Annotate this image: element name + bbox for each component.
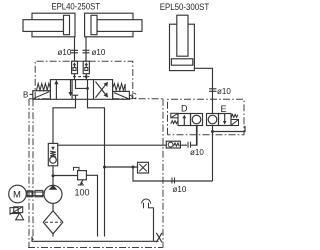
svg-text:ø10: ø10 [92,48,106,57]
svg-text:100: 100 [75,188,90,198]
svg-text:E: E [221,104,227,114]
svg-text:EPL50-300ST: EPL50-300ST [160,2,210,12]
svg-text:EPL40-250ST: EPL40-250ST [52,2,101,12]
svg-text:B: B [23,90,28,99]
svg-text:M: M [13,190,21,201]
svg-text:ø10: ø10 [58,48,72,57]
svg-text:ø10: ø10 [190,148,204,157]
svg-text:D: D [181,104,188,114]
svg-text:C: C [131,92,137,101]
svg-text:ø10: ø10 [173,185,187,194]
svg-text:ø10: ø10 [217,87,231,96]
